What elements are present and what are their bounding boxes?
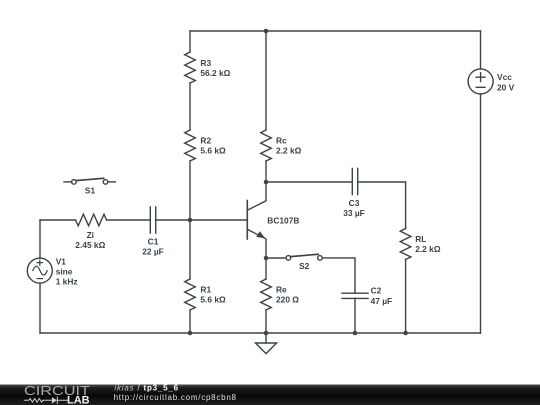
svg-text:V1: V1 (56, 256, 67, 266)
svg-text:5.6 kΩ: 5.6 kΩ (200, 295, 226, 305)
wire R2 to base node (189, 161, 191, 220)
wire collector node to C3 (266, 181, 352, 183)
svg-text:2.2 kΩ: 2.2 kΩ (415, 244, 441, 254)
wire R3-R2 link (189, 83, 191, 130)
wire base (190, 219, 247, 221)
wire S2 right stub to C2 (322, 258, 355, 293)
source Vcc plus sign (476, 73, 485, 82)
wire Rc top lead (265, 31, 267, 130)
svg-text:C1: C1 (148, 237, 159, 247)
svg-text:20 V: 20 V (497, 82, 515, 92)
node C2 bottom junction (353, 331, 358, 336)
resistor RL (400, 229, 411, 260)
capacitor C1 (150, 207, 155, 233)
footer logo diode triangle (52, 397, 57, 403)
svg-text:sine: sine (56, 267, 73, 277)
wire Vcc bottom drop (480, 94, 482, 333)
wire C3 to RL corner (358, 182, 406, 229)
source Vcc minus sign (476, 86, 485, 88)
node top rail / Rc junction (264, 29, 269, 34)
svg-text:5.6 kΩ: 5.6 kΩ (200, 146, 226, 156)
wire R1 bottom lead (189, 310, 191, 333)
svg-text:1 kHz: 1 kHz (56, 277, 78, 287)
svg-text:Zi: Zi (87, 230, 94, 240)
source V1 plus sign (37, 260, 42, 265)
wire Re bottom lead (265, 310, 267, 333)
svg-text:LAB: LAB (67, 394, 90, 405)
svg-text:220 Ω: 220 Ω (276, 295, 299, 305)
svg-text:http://circuitlab.com/cp8cbn8: http://circuitlab.com/cp8cbn8 (114, 393, 237, 402)
node base junction (188, 218, 193, 223)
wire S2 left stub (266, 257, 286, 259)
svg-text:Re: Re (276, 285, 287, 295)
svg-text:S2: S2 (299, 261, 310, 271)
svg-text:R1: R1 (200, 285, 211, 295)
transistor Q1 base bar (246, 201, 248, 240)
wire bottom rail (40, 332, 481, 334)
resistor R3 (185, 52, 196, 83)
svg-text:2.45 kΩ: 2.45 kΩ (75, 240, 105, 250)
node collector junction (264, 180, 269, 185)
resistor R2 (185, 130, 196, 161)
source V1 minus sign (37, 278, 42, 280)
svg-text:R2: R2 (200, 136, 211, 146)
wire V1 top lead (39, 220, 41, 258)
svg-text:C3: C3 (349, 198, 360, 208)
resistor R1 (185, 279, 196, 310)
wire Rc to collector node (265, 161, 267, 182)
svg-text:S1: S1 (85, 186, 96, 196)
svg-text:2.2 kΩ: 2.2 kΩ (276, 146, 302, 156)
transistor Q1 collector lead (247, 182, 266, 210)
resistor Re (261, 279, 272, 310)
node RL bottom junction (403, 331, 408, 336)
capacitor C3 (352, 169, 357, 195)
svg-text:R3: R3 (200, 58, 211, 68)
source V1 (27, 258, 52, 283)
wire C1 to base node (156, 219, 190, 221)
footer bar (0, 385, 540, 405)
svg-text:RL: RL (415, 234, 426, 244)
wire input left segment (40, 219, 76, 221)
switch S2 (286, 254, 322, 260)
source V1 sine glyph (33, 266, 47, 275)
wire Vcc top drop (480, 31, 482, 69)
wire Zi to C1 (107, 219, 151, 221)
svg-text:47 µF: 47 µF (371, 296, 393, 306)
svg-text:22 µF: 22 µF (142, 247, 164, 257)
wire base node to R1 (189, 220, 191, 279)
switch S1 (64, 178, 115, 184)
svg-text:ikias / tp3_5_6: ikias / tp3_5_6 (114, 383, 178, 392)
svg-text:C2: C2 (371, 286, 382, 296)
wire V1 bottom lead (39, 283, 41, 333)
wire R3 top lead (189, 31, 191, 52)
svg-text:56.2 kΩ: 56.2 kΩ (200, 68, 230, 78)
ground (256, 333, 277, 354)
svg-text:Vcc: Vcc (497, 72, 512, 82)
node R1 bottom junction (188, 331, 193, 336)
resistor Zi (76, 214, 107, 226)
source Vcc (468, 69, 493, 94)
svg-text:BC107B: BC107B (267, 215, 299, 225)
wire RL bottom lead (405, 260, 407, 334)
resistor Rc (261, 130, 272, 161)
svg-text:Rc: Rc (276, 136, 287, 146)
transistor Q1 emitter arrow (256, 231, 265, 238)
node emitter junction (264, 256, 269, 261)
wire emitter node to Re (265, 258, 267, 279)
node ground junction (264, 331, 269, 336)
footer logo waveform and diode (24, 397, 68, 404)
wire C2 bottom lead (354, 298, 356, 333)
wire top rail (190, 30, 481, 32)
capacitor C2 (342, 293, 368, 298)
svg-text:33 µF: 33 µF (343, 208, 365, 218)
transistor Q1 emitter lead (247, 229, 266, 258)
